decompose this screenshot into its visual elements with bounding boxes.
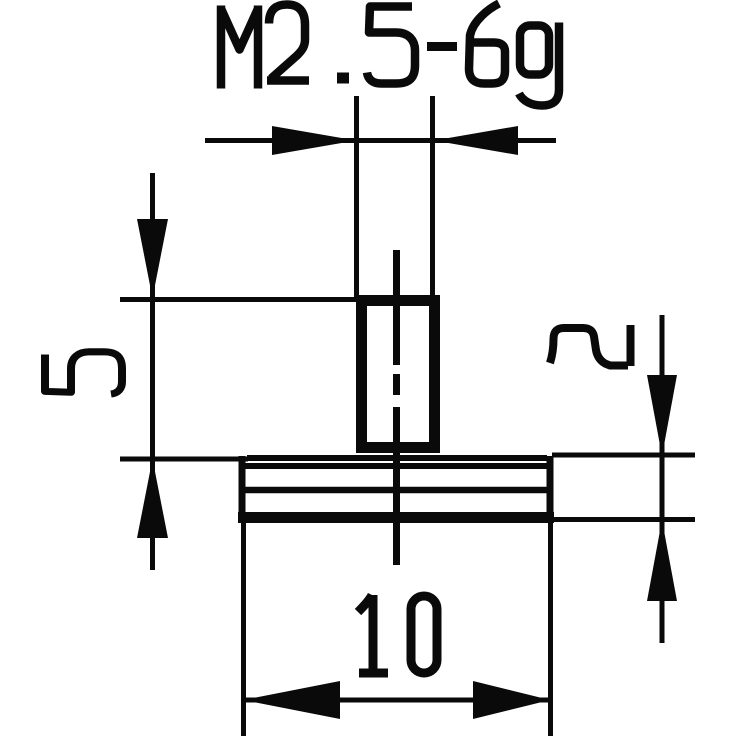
disc top chamfer line [247, 455, 547, 461]
disc right edge [547, 456, 554, 521]
extension line left of thread [354, 96, 359, 298]
left dimension line for 5 [150, 173, 155, 570]
bottom right arrow [473, 681, 550, 719]
disc middle line [240, 487, 552, 494]
top dimension line for M2.5 [205, 138, 556, 143]
left lower extension line [120, 457, 248, 462]
bottom left arrow [243, 681, 340, 719]
thread label text M2.5-6g [221, 4, 559, 106]
top right arrow [434, 126, 518, 155]
right lower arrow [647, 520, 677, 601]
rotated label 2 [550, 325, 631, 366]
extension line below disc left [241, 522, 246, 736]
right dimension line for 2 [660, 315, 665, 643]
centerline dash-dot [393, 250, 400, 565]
right upper arrow [647, 375, 677, 456]
left upper arrow [137, 219, 168, 298]
right upper extension line [552, 453, 695, 458]
disc left edge [239, 456, 246, 521]
left upper extension line [120, 297, 358, 302]
bottom dimension line for 10 [243, 698, 550, 703]
disc bottom edge [238, 512, 554, 523]
label 10 digit 1 [358, 595, 388, 673]
rotated label 5 [45, 352, 122, 394]
threaded stem outline [362, 301, 435, 448]
right lower extension line [553, 517, 695, 522]
label 10 digit 0 [411, 596, 437, 673]
top left arrow [272, 126, 356, 155]
left lower arrow [137, 459, 168, 538]
extension line below disc right [548, 522, 553, 736]
disc top edge line [240, 463, 552, 469]
extension line right of thread [430, 96, 435, 298]
